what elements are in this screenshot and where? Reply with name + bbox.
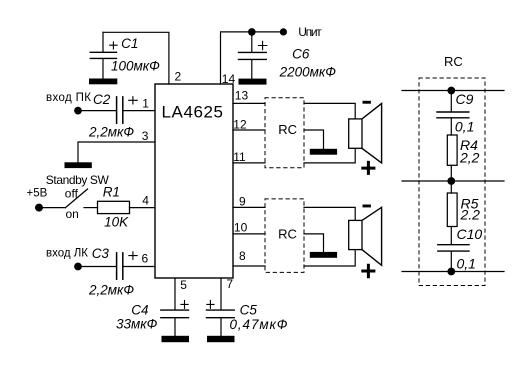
capacitor C6 (239, 32, 267, 79)
capacitor C10 (438, 245, 469, 272)
wire pin14 to supply rail (221, 32, 284, 84)
wire RC1 to speaker plus (304, 148, 355, 163)
svg-text:10K: 10K (104, 214, 129, 229)
ground (RC2 stub) (310, 252, 337, 258)
svg-text:C1: C1 (121, 36, 138, 51)
svg-text:LA4625: LA4625 (162, 103, 224, 122)
node +5B terminal (35, 204, 43, 212)
C1 plus polarity (110, 42, 117, 49)
wire RC1 to speaker minus (304, 103, 355, 119)
resistor R4 (447, 135, 457, 165)
wire pin7 down (220, 278, 222, 310)
svg-text:13: 13 (235, 89, 249, 103)
svg-text:1: 1 (142, 96, 149, 110)
capacitor C1 (90, 32, 116, 78)
wire net bottom rail (402, 271, 504, 273)
RC network dashed box (419, 78, 485, 286)
svg-text:5: 5 (180, 278, 187, 292)
ground (C5) (207, 336, 235, 342)
svg-text:RC: RC (278, 227, 297, 242)
svg-text:вход ЛК: вход ЛК (46, 248, 88, 260)
wire pin10 to RC block (233, 233, 265, 235)
wire pin8 to RC block (233, 265, 265, 267)
wire RC2 middle stub to ground (304, 234, 324, 252)
resistor R5 (447, 193, 457, 227)
svg-text:2.2: 2.2 (460, 207, 481, 223)
speaker SP1 cone (362, 104, 382, 164)
svg-text:2: 2 (175, 70, 182, 84)
wire C3 to pin6 (124, 266, 156, 268)
C4 plus polarity (181, 300, 188, 308)
svg-text:2,2мкФ: 2,2мкФ (88, 125, 134, 140)
node junction middle (447, 177, 455, 185)
svg-text:6: 6 (142, 251, 149, 265)
wire pin9 to RC block (233, 206, 265, 208)
wire pin11 to RC block (233, 162, 265, 164)
svg-text:0,1: 0,1 (457, 256, 476, 272)
svg-text:7: 7 (226, 277, 233, 291)
svg-text:Uпит: Uпит (298, 25, 322, 39)
capacitor C9 (437, 91, 469, 136)
svg-text:R1: R1 (103, 184, 120, 199)
svg-text:+5B: +5B (27, 188, 48, 200)
SP1 plus label (363, 162, 374, 173)
wire RC2 to speaker minus (304, 207, 355, 220)
svg-text:3: 3 (142, 129, 149, 143)
switch SW blade (66, 189, 88, 208)
svg-text:2200мкФ: 2200мкФ (279, 65, 337, 80)
svg-text:0,1: 0,1 (455, 118, 474, 134)
svg-text:C5: C5 (240, 303, 258, 318)
wire pin12 to RC block (233, 129, 265, 131)
wire input to C3 (78, 266, 116, 268)
wire +5B to switch (43, 207, 66, 209)
wire R4 to mid rail (450, 165, 452, 181)
svg-text:14: 14 (222, 72, 236, 86)
wire pin13 to RC block (233, 102, 265, 104)
svg-text:C4: C4 (131, 303, 148, 318)
capacitor C2 (117, 97, 123, 123)
ground (C6) (239, 79, 267, 85)
SP1 minus label (363, 101, 371, 104)
wire net top (speaker minus rail) (402, 90, 504, 92)
wire R5 to C10 (450, 227, 452, 245)
node вход ЛК input terminal (74, 263, 82, 271)
wire pin5 down (174, 278, 176, 310)
wire R1 to pin4 (130, 207, 156, 209)
svg-text:2,2: 2,2 (459, 149, 480, 165)
RC block 2 (bottom channel) (265, 199, 304, 273)
svg-text:9: 9 (239, 195, 246, 209)
op-amp U1 LA4625 IC body (155, 84, 233, 278)
speaker SP2 cone (362, 207, 382, 265)
SP2 plus label (363, 265, 374, 276)
svg-text:12: 12 (233, 117, 247, 131)
svg-text:4: 4 (142, 194, 149, 208)
wire switch to R1 (84, 207, 98, 209)
svg-text:10: 10 (234, 220, 248, 234)
speaker SP1 driver (349, 119, 362, 148)
svg-text:8: 8 (239, 249, 246, 263)
node junction C6/supply (248, 28, 256, 36)
svg-text:100мкФ: 100мкФ (111, 59, 160, 74)
ground (C4) (162, 336, 190, 342)
C6 plus polarity (258, 41, 266, 49)
C5 plus polarity (207, 300, 214, 308)
capacitor C4 (161, 310, 189, 336)
resistor R1 (98, 201, 130, 213)
wire mid rail to R5 (450, 181, 452, 193)
svg-text:0,47мкФ: 0,47мкФ (230, 317, 288, 332)
C2 plus polarity (129, 97, 138, 104)
svg-text:вход ПК: вход ПК (46, 92, 91, 104)
svg-text:Standby SW: Standby SW (46, 173, 110, 187)
node junction top (447, 87, 455, 95)
capacitor C3 (117, 253, 123, 279)
SP2 minus label (363, 205, 371, 208)
wire RC1 middle stub to ground (304, 130, 324, 149)
svg-text:RC: RC (444, 54, 463, 69)
node Uпит terminal (280, 28, 287, 35)
wire pin2 to top rail (103, 32, 169, 84)
RC block 1 (top channel) (265, 98, 304, 168)
svg-text:C2: C2 (93, 92, 111, 107)
svg-text:off: off (65, 186, 79, 200)
capacitor C5 (207, 310, 235, 336)
svg-text:RC: RC (278, 122, 297, 137)
svg-text:33мкФ: 33мкФ (116, 317, 158, 332)
svg-text:C9: C9 (456, 91, 474, 107)
ground (RC1 stub) (310, 149, 337, 155)
C3 plus polarity (129, 252, 137, 259)
svg-text:C3: C3 (92, 246, 110, 261)
wire net middle rail (402, 180, 504, 182)
svg-text:11: 11 (233, 150, 246, 164)
svg-text:C10: C10 (457, 226, 483, 242)
node вход ПК input terminal (74, 107, 82, 115)
wire pin3 to ground (78, 142, 155, 162)
svg-text:on: on (66, 207, 79, 221)
speaker SP2 driver (349, 220, 362, 249)
svg-text:2,2мкФ: 2,2мкФ (88, 283, 134, 298)
svg-text:C6: C6 (292, 47, 310, 62)
wire RC2 to speaker plus (304, 250, 355, 266)
wire C2 to pin1 (124, 110, 156, 112)
ground (C1) (89, 79, 117, 85)
ground (pin3) (65, 162, 92, 168)
node junction bottom (447, 268, 455, 276)
wire input to C2 (78, 110, 116, 112)
